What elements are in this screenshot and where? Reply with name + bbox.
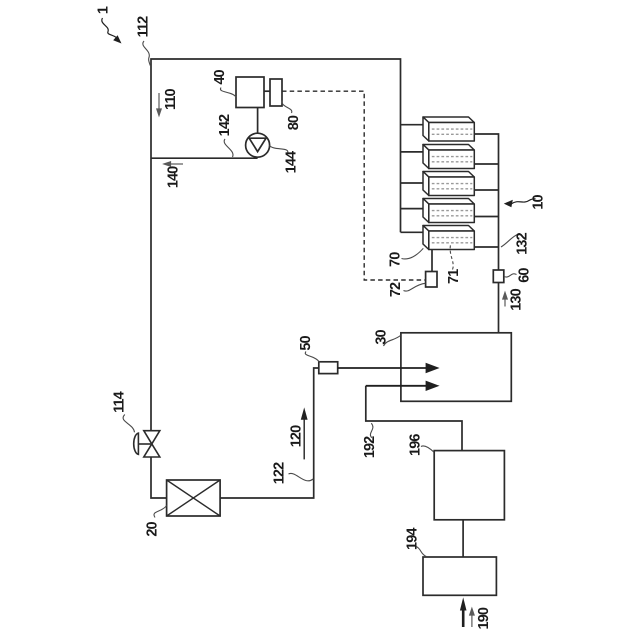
svg-text:70: 70 <box>387 252 403 267</box>
svg-text:40: 40 <box>212 70 228 85</box>
svg-text:10: 10 <box>531 195 547 210</box>
svg-text:20: 20 <box>145 522 161 537</box>
svg-text:142: 142 <box>217 114 233 136</box>
svg-text:130: 130 <box>508 288 524 310</box>
svg-text:140: 140 <box>166 166 182 188</box>
svg-text:80: 80 <box>286 115 302 130</box>
svg-text:190: 190 <box>476 607 492 629</box>
svg-text:122: 122 <box>272 462 288 484</box>
svg-text:196: 196 <box>408 434 424 456</box>
svg-text:132: 132 <box>515 232 531 254</box>
svg-text:50: 50 <box>298 336 314 351</box>
svg-text:110: 110 <box>163 89 179 111</box>
svg-text:120: 120 <box>289 425 305 447</box>
svg-text:60: 60 <box>516 268 532 283</box>
svg-text:114: 114 <box>111 391 127 413</box>
svg-text:112: 112 <box>136 16 152 38</box>
svg-text:72: 72 <box>388 282 404 297</box>
svg-text:192: 192 <box>362 436 378 458</box>
svg-text:30: 30 <box>374 330 390 345</box>
svg-text:144: 144 <box>284 151 300 173</box>
svg-text:1: 1 <box>96 6 112 14</box>
svg-text:194: 194 <box>405 528 421 550</box>
svg-text:71: 71 <box>446 269 462 284</box>
